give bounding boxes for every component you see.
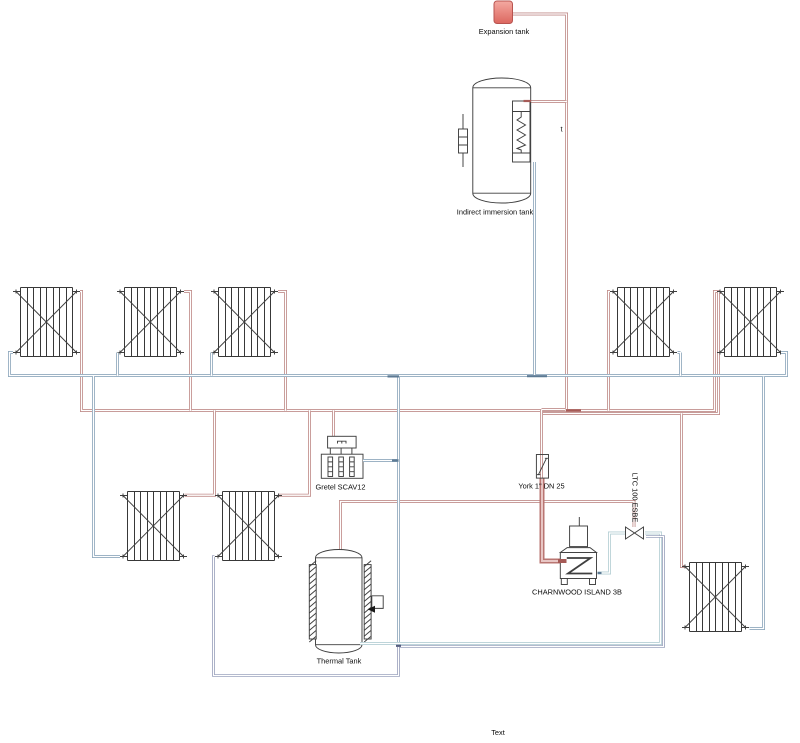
wire radiator8 return riser: [750, 377, 764, 629]
wire radiator3 supply riser: [278, 292, 286, 411]
wire pump outlet stub: [363, 460, 399, 462]
node coil return joint: [527, 375, 547, 377]
wire tank to esbe valve: [341, 502, 635, 552]
node red main joint: [566, 409, 581, 411]
svg-text:Indirect immersion tank: Indirect immersion tank: [457, 208, 534, 217]
thermal tank body: [316, 550, 363, 654]
wire stove to valve loop: [360, 533, 661, 644]
pump Gretel SCAV12: [321, 436, 363, 478]
node coil supply joint: [524, 100, 532, 102]
wire radiator7 supply drop: [279, 411, 310, 496]
radiator 8: [682, 563, 749, 632]
radiator 5: [717, 288, 784, 357]
stove Charnwood Island 3B: [560, 517, 596, 585]
wire radiator2 return drop: [117, 353, 119, 376]
wire radiator3 return drop: [211, 353, 213, 376]
radiator 2: [117, 288, 184, 357]
node stove feed joint: [558, 559, 567, 563]
wire radiator8 supply drop: [682, 414, 685, 567]
radiator 6: [120, 492, 187, 561]
radiator 3: [211, 288, 278, 357]
svg-text:LTC 100 ESBE: LTC 100 ESBE: [631, 473, 640, 523]
immersion heater element: [459, 114, 468, 167]
wire radiator4 supply riser: [609, 292, 611, 411]
heat exchanger coil U1: [513, 101, 531, 162]
radiator 4: [610, 288, 677, 357]
wire radiator4 return drop: [678, 353, 681, 376]
wire radiator6 supply drop: [185, 411, 215, 496]
wire red supply main A: [80, 292, 720, 411]
expansion tank: [494, 1, 513, 24]
svg-text:Gretel SCAV12: Gretel SCAV12: [316, 483, 366, 492]
check valve York DN25: [536, 455, 548, 479]
wire radiator7 return loop: [214, 557, 399, 676]
svg-text:t: t: [561, 125, 563, 134]
svg-text:CHARNWOOD ISLAND 3B: CHARNWOOD ISLAND 3B: [532, 588, 622, 597]
indirect immersion tank body: [473, 78, 531, 203]
node blue riser joint: [388, 375, 400, 377]
wire center return riser: [398, 377, 400, 646]
wire radiator6 return: [94, 376, 121, 557]
svg-text:Thermal Tank: Thermal Tank: [317, 657, 362, 666]
radiator 7: [215, 492, 282, 561]
wire stove feed thick: [542, 478, 562, 561]
node stove outlet joint: [598, 572, 602, 574]
svg-text:Expansion tank: Expansion tank: [479, 27, 530, 36]
wire coil supply: [530, 101, 567, 103]
wire radiator2 supply riser: [184, 292, 191, 411]
mixing valve ESBE LTC100: [626, 527, 644, 539]
svg-text:York 1" DN 25: York 1" DN 25: [518, 482, 564, 491]
wire valve return loop: [400, 537, 664, 647]
radiator 1: [13, 288, 80, 357]
wire red supply main B: [543, 293, 722, 414]
wire blue return main: [10, 353, 787, 376]
node bottom loop joint: [396, 645, 401, 647]
node pump outlet joint: [392, 459, 399, 461]
thermal tank insulation left: [309, 561, 316, 642]
wire immersion coil return: [534, 162, 536, 375]
svg-text:Text: Text: [491, 728, 505, 737]
wire expansion tank line: [513, 14, 567, 410]
thermal tank side port: [368, 596, 384, 613]
wire york valve line: [542, 410, 566, 479]
wire pump feed: [333, 411, 335, 438]
thermal tank insulation right: [364, 561, 371, 642]
